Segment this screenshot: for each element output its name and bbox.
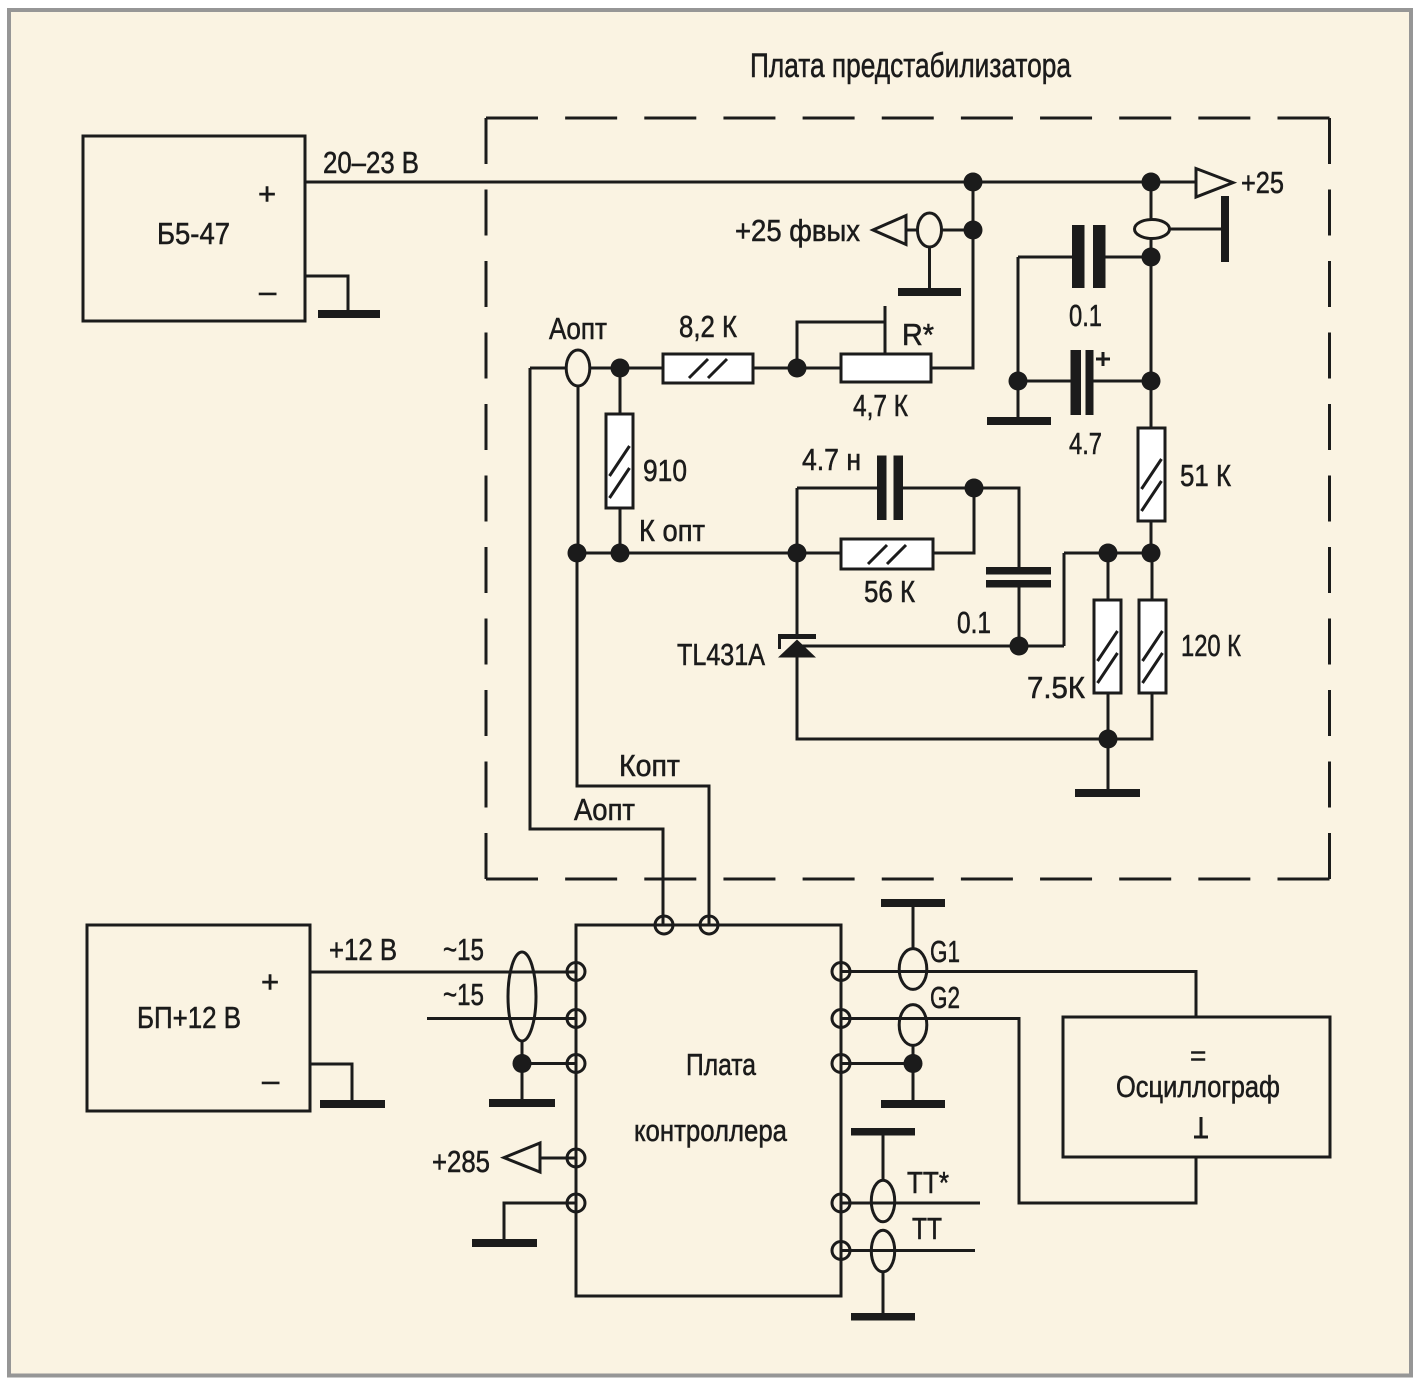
node junction G2 screen	[904, 1054, 923, 1073]
wire pin5 to ground	[504, 1203, 576, 1239]
resistor 120K	[1139, 600, 1241, 693]
svg-text:+12 В: +12 В	[329, 932, 397, 967]
shunt regulator TL431A	[677, 634, 816, 672]
controller board box	[576, 925, 841, 1296]
pin left 5	[567, 1194, 585, 1212]
terminal ellipse +25 fvyh	[918, 213, 942, 247]
wire screen to ground and pin 3	[522, 1041, 576, 1099]
svg-text:+25 фвых: +25 фвых	[735, 213, 860, 248]
power supply Б5-47	[83, 136, 305, 321]
svg-text:~15: ~15	[443, 977, 484, 1012]
wire Aopt ellipse bottom to Kopt bus	[577, 386, 580, 553]
resistor R* 4,7 К trimmer	[797, 306, 934, 423]
wire pin3 to G2 screen ground	[841, 1045, 913, 1100]
wire riser x=1018 to ground	[1017, 257, 1020, 417]
svg-text:контроллера: контроллера	[634, 1113, 788, 1148]
wire Kopt exit to controller	[577, 553, 709, 925]
svg-text:8,2 К: 8,2 К	[679, 309, 737, 344]
wire TT* gnd stub	[882, 1136, 885, 1182]
svg-text:+25: +25	[1241, 165, 1284, 200]
wire Aopt feed	[530, 367, 663, 370]
svg-text:120 К: 120 К	[1181, 628, 1241, 663]
node junction Kopt left	[568, 544, 587, 563]
ground below TT	[851, 1313, 915, 1321]
terminal ellipse G1	[899, 949, 927, 990]
node junction 4.7 cap left	[1009, 372, 1028, 391]
wire 4.7n left corner down to Kopt	[796, 488, 799, 634]
arrow +285 output	[504, 1143, 540, 1172]
svg-text:Б5-47: Б5-47	[157, 216, 230, 251]
pin left 2	[567, 1010, 585, 1028]
node junction 0.1 cap right	[1142, 248, 1161, 267]
wire right column riser x=1151	[1150, 182, 1153, 428]
node junction +25 fvyh branch	[964, 221, 983, 240]
node junction on rail x=973	[964, 173, 983, 192]
wire node to 0.1 bottom cap	[974, 488, 1019, 567]
pin left 3	[567, 1055, 585, 1073]
svg-text:20–23 В: 20–23 В	[323, 145, 419, 180]
wire Aopt exit to controller	[530, 368, 663, 925]
svg-text:БП+12 В: БП+12 В	[137, 1000, 241, 1035]
terminal ellipse TT	[871, 1230, 894, 1272]
wire ~15 second to controller pin 2	[427, 1017, 576, 1020]
wire +25 fvyh branch	[906, 229, 973, 232]
wire ellipse bottom to ground	[928, 247, 931, 288]
wire G1 to oscilloscope	[841, 972, 1196, 1018]
svg-text:4.7 н: 4.7 н	[802, 442, 861, 477]
wire 7.5K stubs	[1107, 553, 1110, 739]
wire 51K bottom stub	[1150, 521, 1153, 553]
node junction 4.7 cap right	[1142, 372, 1161, 391]
resistor 8.2K	[663, 309, 753, 383]
pin Копт top	[700, 916, 718, 934]
svg-text:Аопт: Аопт	[574, 792, 635, 827]
svg-text:910: 910	[643, 453, 687, 488]
chassis bar	[1221, 196, 1229, 262]
wire riser ref node	[1063, 553, 1066, 646]
wire 120K bottom to junction	[1108, 553, 1152, 739]
ground screen	[489, 1099, 555, 1107]
wire G2 to oscilloscope return	[841, 1019, 1196, 1204]
ground +25 fvyh	[898, 288, 961, 296]
ground Б5-47	[318, 310, 380, 318]
ground pin5	[472, 1239, 537, 1247]
dashed boundary of prestabilizer board	[486, 118, 1330, 879]
svg-text:Плата: Плата	[686, 1047, 757, 1082]
node junction ref / 0.1 bottom	[1010, 637, 1029, 656]
node junction screen	[513, 1054, 532, 1073]
ground G2 screen	[881, 1100, 945, 1108]
svg-text:Аопт: Аопт	[549, 311, 607, 346]
svg-text:Осциллограф: Осциллограф	[1116, 1069, 1280, 1104]
node junction 8.2K left	[611, 359, 630, 378]
svg-text:~15: ~15	[443, 932, 484, 967]
node junction anode/divider bottom	[1099, 730, 1118, 749]
wire 910 stubs	[619, 368, 622, 553]
svg-text:0.1: 0.1	[1069, 298, 1102, 333]
svg-text:=: =	[1190, 1040, 1206, 1071]
svg-text:Плата предстабилизатора: Плата предстабилизатора	[750, 47, 1071, 85]
pin right 1 G1	[832, 963, 850, 981]
node junction 910 bottom	[611, 544, 630, 563]
svg-text:4,7 К: 4,7 К	[853, 388, 908, 423]
svg-text:R*: R*	[902, 317, 934, 352]
svg-text:TL431А: TL431А	[677, 637, 765, 672]
wire TT	[841, 1249, 975, 1252]
pin left 1	[567, 963, 585, 981]
capacitor 0.1 (top)	[1018, 225, 1151, 333]
pin Аопт top	[655, 916, 673, 934]
svg-text:К опт: К опт	[639, 513, 705, 548]
ground БП minus	[320, 1100, 385, 1108]
wire +285	[540, 1157, 576, 1160]
svg-text:G2: G2	[930, 980, 960, 1015]
cable screen ellipse ~15 pair	[508, 952, 536, 1041]
node junction 4.7n right	[965, 479, 984, 498]
node junction R* left	[788, 359, 807, 378]
node junction on rail x=1151	[1142, 173, 1161, 192]
wire 20-23 V rail	[305, 181, 1195, 184]
capacitor 4.7 electrolytic	[1018, 350, 1151, 461]
wire TL431 ref to divider	[801, 645, 1064, 648]
arrow +25 output	[1196, 169, 1233, 198]
wire 8.2K to R*	[753, 367, 841, 370]
pin right 5 TT	[832, 1242, 850, 1260]
ground below 4.7 cap left	[987, 417, 1051, 425]
wire TT ellipse bottom to ground	[882, 1272, 885, 1314]
terminal ellipse Aopt	[566, 350, 590, 386]
svg-text:7.5К: 7.5К	[1027, 670, 1085, 705]
wire 56K right riser	[933, 488, 974, 553]
wire ellipse to chassis bar	[1170, 228, 1222, 231]
power supply БП+12В	[87, 925, 310, 1111]
wire Kopt bus	[577, 552, 841, 555]
svg-text:–: –	[262, 1063, 280, 1098]
resistor 56K	[841, 539, 933, 609]
svg-text:+: +	[258, 176, 276, 211]
wire Б5-47 minus to ground	[305, 276, 348, 310]
wire divider node y=553	[1064, 552, 1152, 555]
arrow +25 fvyh (left pointing)	[873, 216, 906, 245]
svg-text:+: +	[261, 964, 279, 999]
ground above TT*	[851, 1128, 915, 1136]
ground above G1	[881, 899, 945, 907]
svg-text:+285: +285	[432, 1144, 490, 1179]
capacitor 0.1 (bottom)	[957, 567, 1051, 646]
node junction 120K top	[1142, 544, 1161, 563]
svg-text:Копт: Копт	[619, 748, 680, 783]
svg-text:–: –	[259, 274, 277, 309]
svg-text:G1: G1	[930, 934, 960, 969]
terminal ellipse TT*	[871, 1180, 894, 1222]
svg-text:ТТ: ТТ	[912, 1211, 942, 1246]
svg-text:ТТ*: ТТ*	[907, 1165, 949, 1200]
pin right 2 G2	[832, 1010, 850, 1028]
wire +12V to controller pin 1	[310, 971, 576, 974]
node junction TL431 cathode	[788, 544, 807, 563]
pin right 3	[832, 1055, 850, 1073]
wire G1 gnd stub	[912, 907, 915, 949]
svg-text:51 К: 51 К	[1180, 458, 1231, 493]
svg-text:4.7: 4.7	[1069, 426, 1102, 461]
oscilloscope box	[1063, 1017, 1330, 1157]
wire TT*	[841, 1202, 980, 1205]
capacitor 4.7n	[797, 442, 974, 520]
pin left 4	[567, 1149, 585, 1167]
wire TL431 anode to divider bottom	[797, 657, 1108, 739]
resistor 51K	[1138, 428, 1231, 521]
node junction 7.5K top	[1099, 544, 1118, 563]
resistor 7.5K	[1027, 600, 1121, 705]
terminal ellipse chassis feedthrough	[1135, 220, 1170, 239]
wire riser from rail to R* right end	[931, 182, 973, 368]
wire junction to ground	[1107, 739, 1110, 789]
terminal ellipse G2	[899, 1005, 927, 1046]
resistor 910	[606, 414, 687, 508]
svg-text:0.1: 0.1	[957, 605, 991, 640]
svg-text:56 К: 56 К	[864, 574, 915, 609]
wire БП minus to ground	[310, 1064, 352, 1100]
ground divider bottom	[1075, 789, 1140, 797]
pin right 4 TT*	[832, 1194, 850, 1212]
